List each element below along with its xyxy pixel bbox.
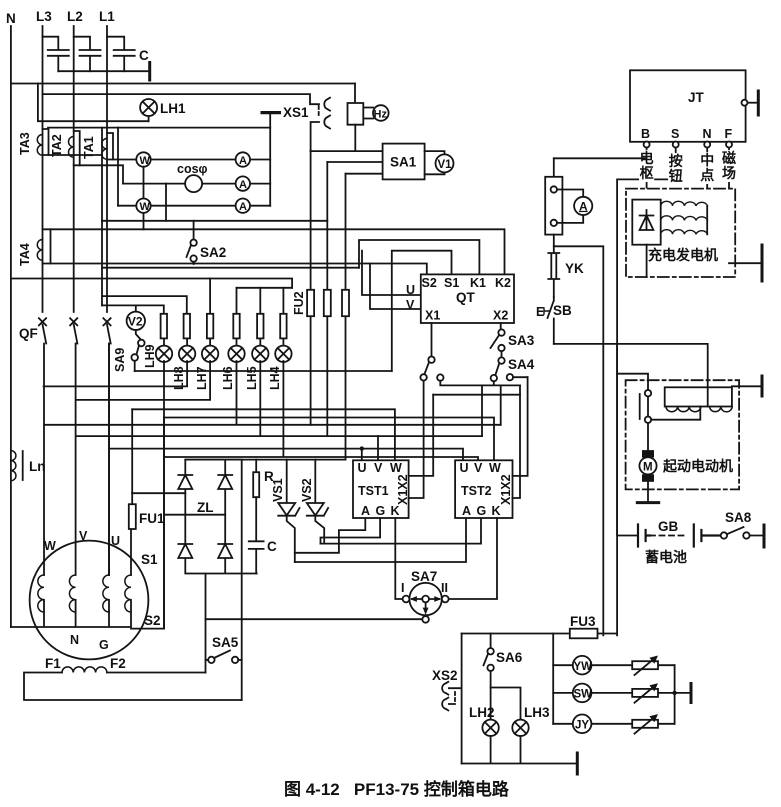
svg-text:LH9: LH9	[143, 344, 157, 368]
svg-text:A: A	[462, 504, 471, 518]
wire feed1 drop through FU2a	[310, 151, 312, 425]
SECTION:MIDLEFT2	[11, 344, 426, 701]
wire left return vertical x102	[101, 128, 103, 306]
node terminal bar	[148, 63, 151, 81]
wire shunt down	[553, 235, 555, 253]
wire N line	[10, 26, 12, 627]
wire gen neutral bus	[11, 600, 131, 627]
resistor LH9 dropper	[161, 314, 167, 339]
svg-text:LH6: LH6	[221, 366, 235, 390]
svg-text:E: E	[536, 305, 544, 319]
svg-text:QT: QT	[456, 290, 476, 305]
wire LH4 stub	[282, 288, 284, 314]
wire F line down	[728, 148, 730, 264]
wire VS1 gate bus B544	[321, 518, 381, 544]
node ground bar bottom	[576, 753, 579, 774]
svg-text:XS2: XS2	[432, 668, 458, 683]
node SA8 terminal bar	[763, 525, 766, 547]
svg-text:M: M	[643, 461, 653, 473]
wire rail y218	[102, 220, 327, 222]
node test terminal bar	[262, 111, 279, 114]
switch SA8	[721, 527, 764, 539]
wire TST2 X2 side	[433, 377, 527, 476]
wire SW branch	[553, 692, 674, 694]
meter W1	[136, 152, 150, 167]
svg-text:SA4: SA4	[508, 357, 535, 372]
wire QT U feed	[362, 251, 421, 295]
wire TST A bus	[295, 518, 466, 562]
wire LH1 down to rail127	[148, 116, 150, 121]
svg-text:K1: K1	[470, 276, 486, 290]
svg-text:B: B	[641, 127, 650, 141]
meter JY	[573, 715, 592, 734]
wire rail y183.6	[123, 183, 270, 185]
wire L2 line	[73, 26, 75, 312]
svg-text:QF: QF	[19, 326, 38, 341]
ground motor	[637, 501, 658, 504]
rheostat YW	[632, 656, 658, 676]
rectifier block in generator	[632, 200, 660, 245]
switch selector SA7	[403, 583, 449, 623]
meter V1	[425, 151, 454, 174]
SECTION:RIGHT-END	[284, 614, 691, 799]
svg-text:L3: L3	[36, 9, 52, 24]
lamp LH8	[179, 338, 195, 362]
field winding F1F2 coil	[62, 667, 107, 673]
svg-text:SB: SB	[553, 303, 572, 318]
wire N line down	[706, 148, 708, 221]
meter Hz	[373, 105, 389, 121]
svg-text:W: W	[390, 461, 402, 475]
wire LH7 bus y398.7	[76, 361, 210, 400]
wire TST2 X1 side	[513, 385, 521, 498]
battery GB	[617, 344, 721, 547]
switch SA2	[187, 221, 197, 264]
winding solenoid coil right	[710, 407, 733, 412]
meter YW	[573, 656, 592, 675]
wire rail y205.7	[118, 205, 270, 207]
svg-text:SA2: SA2	[200, 245, 226, 260]
generator G circle	[30, 541, 149, 660]
svg-text:G: G	[477, 504, 487, 518]
switch SA9	[131, 330, 144, 371]
wire SA1 feed2	[327, 161, 382, 163]
svg-text:LH7: LH7	[195, 366, 209, 390]
svg-text:电枢: 电枢	[640, 150, 654, 181]
breaker QF pole2	[70, 318, 77, 575]
svg-text:A: A	[361, 504, 370, 518]
svg-text:SA1: SA1	[390, 155, 417, 170]
wire LH8 bus y385.9	[44, 361, 188, 386]
wire X2 drop	[500, 323, 502, 329]
wire shunt top wire	[554, 157, 647, 159]
wire battery feed vertical	[616, 344, 618, 535]
plug Hz box	[348, 84, 374, 125]
wire FU3 bus	[462, 633, 617, 635]
svg-text:LH4: LH4	[268, 366, 282, 390]
svg-text:X1X2: X1X2	[396, 474, 410, 505]
winding S coil	[125, 575, 131, 612]
svg-text:TA4: TA4	[18, 243, 32, 266]
wire DC plus rail y459.6	[185, 459, 345, 461]
svg-text:N: N	[6, 11, 16, 26]
wire ZL upper AC input	[132, 492, 185, 494]
svg-text:Hz: Hz	[374, 109, 388, 121]
svg-text:LH3: LH3	[524, 705, 550, 720]
svg-text:S2: S2	[144, 613, 161, 628]
fuse FU3	[570, 629, 598, 639]
lamp LH2	[482, 720, 498, 736]
connector XS2 dashes	[454, 692, 456, 702]
wire SA1 feed3	[346, 173, 383, 175]
transformer TA2	[68, 131, 79, 165]
wire YW branch	[553, 664, 674, 666]
lamp LH9	[156, 338, 172, 362]
wire bus B409 to TST1 W	[132, 409, 395, 460]
svg-text:S1: S1	[141, 552, 158, 567]
wire rail y159.5	[113, 159, 270, 161]
winding stator coil row3	[661, 230, 708, 235]
svg-text:K: K	[492, 504, 501, 518]
relay YK	[548, 253, 559, 297]
node motor terminal upper	[645, 390, 651, 396]
wire SA2 bottom rail y267.3	[102, 267, 359, 269]
lamp LH4	[275, 338, 291, 362]
fuse FU2 c	[342, 290, 349, 316]
capacitor C (L2 branch)	[74, 37, 101, 71]
SECTION:QT-END	[536, 70, 764, 635]
wire lamp bottoms to ground	[462, 736, 578, 764]
wire B line down	[646, 148, 648, 200]
svg-text:W: W	[44, 539, 56, 553]
svg-text:XS1: XS1	[283, 105, 309, 120]
resistor LH4 dropper	[280, 314, 286, 339]
node collector terminal bar	[690, 684, 693, 703]
svg-text:按钮: 按钮	[668, 153, 683, 184]
fuse FU2 a	[307, 290, 314, 316]
wire TA1 tie vertical x118	[117, 128, 119, 206]
connector XS1 lower socket	[311, 116, 330, 152]
block charging generator dash box	[626, 189, 735, 277]
wire SB bottom bus	[554, 344, 708, 407]
svg-text:VS1: VS1	[271, 478, 285, 502]
svg-text:TA2: TA2	[50, 134, 64, 157]
svg-text:LH2: LH2	[469, 705, 495, 720]
fuse FU1	[129, 504, 136, 529]
transformer TA1	[102, 133, 113, 160]
node F terminal	[726, 142, 732, 148]
svg-text:TST1: TST1	[358, 484, 389, 498]
wire coil right tie	[706, 206, 708, 234]
wire LH5 stub	[259, 288, 261, 314]
wire TST1 X2 side	[409, 395, 434, 476]
wire right collector	[675, 665, 691, 724]
winding stator coil row1	[661, 201, 708, 206]
svg-text:GB: GB	[658, 519, 679, 534]
wire bus y241 to S1	[392, 251, 452, 371]
wire rail y287.8 resistor feed	[237, 287, 293, 289]
SECTION:GEN-END	[178, 377, 527, 623]
breaker QF pole1	[39, 318, 46, 575]
wire XS2 left vertical	[461, 634, 463, 764]
resistor R	[253, 460, 274, 498]
wire bus y278.5 from N	[11, 279, 292, 288]
capacitor C (L3 branch)	[43, 37, 69, 71]
wire SA1 feed1	[311, 150, 383, 152]
svg-text:ZL: ZL	[197, 500, 214, 515]
resistor LH6 dropper	[233, 314, 239, 339]
wire bus B436	[76, 361, 482, 436]
svg-text:V: V	[374, 461, 383, 475]
resistor LH7 dropper	[207, 314, 213, 339]
capacitor C filter	[249, 497, 277, 573]
fuse FU2 b	[324, 290, 331, 316]
node S terminal	[673, 142, 679, 148]
wire ZL bottom tap riser x205.5	[205, 574, 207, 673]
svg-text:N: N	[703, 127, 712, 141]
connector XS2 lower socket	[442, 698, 455, 711]
wire S coil top to FU1	[130, 529, 132, 575]
wire ammeter collector x270.2	[269, 113, 271, 206]
svg-text:K2: K2	[495, 276, 511, 290]
svg-text:L2: L2	[67, 9, 83, 24]
wire B619 to SA7	[206, 618, 426, 620]
wire rail y293.9 to LH8	[102, 296, 187, 314]
svg-text:F: F	[725, 127, 733, 141]
svg-text:中点: 中点	[700, 152, 714, 183]
svg-text:YK: YK	[565, 261, 584, 276]
svg-text:LH5: LH5	[245, 366, 259, 390]
meter cos phi	[177, 162, 208, 192]
svg-text:SA5: SA5	[212, 635, 239, 650]
wire relay right terminal	[732, 385, 762, 387]
wire JY branch	[553, 723, 674, 725]
svg-text:S2: S2	[422, 276, 437, 290]
svg-text:F1: F1	[45, 656, 61, 671]
SECTION:ZL-END	[406, 274, 535, 436]
inductor Ln	[11, 451, 23, 481]
wire W1-W2 tie	[143, 160, 145, 230]
svg-text:W: W	[489, 461, 501, 475]
junction dot collector	[672, 691, 676, 695]
wire JT right nub	[742, 91, 759, 115]
wire U line down	[108, 344, 110, 576]
wire bus B417 to TST2 W	[164, 418, 494, 461]
svg-text:cosφ: cosφ	[177, 162, 208, 176]
svg-text:U: U	[406, 283, 415, 297]
SECTION:METERS	[43, 84, 505, 460]
svg-text:X2: X2	[493, 309, 508, 323]
wire bus B425	[44, 361, 501, 425]
relay contact box	[665, 387, 732, 406]
block TST1 box	[353, 460, 409, 518]
wire LH9 stub up	[209, 279, 211, 314]
winding stator coil row2	[661, 216, 708, 221]
winding U coil	[103, 575, 109, 612]
svg-text:S: S	[671, 127, 679, 141]
diode ZL bottom-right	[218, 544, 232, 558]
rheostat SW	[632, 683, 658, 703]
lamp LH3	[512, 720, 528, 736]
wire cosphi rail tie	[165, 184, 167, 221]
node motor terminal lower	[645, 417, 651, 423]
svg-text:SW: SW	[574, 689, 593, 701]
transformer TA3	[37, 129, 48, 155]
svg-text:SA9: SA9	[113, 348, 127, 372]
svg-text:A: A	[239, 155, 247, 167]
connector XS2 upper socket	[442, 682, 461, 695]
switch SA3	[491, 329, 505, 351]
wire feed2 drop through FU2b	[326, 162, 328, 436]
wire SA4 right lead	[513, 376, 528, 378]
wire ZL lower AC input and S2 riser	[164, 418, 225, 629]
svg-text:SA8: SA8	[725, 510, 752, 525]
wire terminal link	[617, 374, 700, 450]
rectifier ZL box	[185, 460, 256, 574]
svg-text:G: G	[99, 638, 109, 652]
wire second drop x603	[602, 344, 604, 636]
switch SB	[544, 297, 554, 344]
diode ZL top-right	[218, 475, 232, 489]
meter A1	[236, 152, 250, 167]
svg-text:JY: JY	[575, 719, 589, 731]
wire FU1 top	[131, 493, 133, 504]
wire LH6 stub	[236, 288, 238, 314]
wire S line jog	[617, 148, 676, 636]
svg-text:X1: X1	[425, 309, 440, 323]
node B terminal	[644, 142, 650, 148]
wire top bus y83.5	[11, 83, 355, 85]
svg-text:I: I	[401, 581, 404, 595]
resistor LH8 dropper	[184, 314, 190, 339]
wire gen ground lead	[729, 262, 762, 264]
svg-text:V: V	[406, 298, 415, 312]
svg-text:FU1: FU1	[139, 511, 165, 526]
diode ZL top-left	[178, 475, 192, 489]
resistor LH5 dropper	[257, 314, 263, 339]
wire y377.4 link	[437, 374, 443, 380]
meter W2	[136, 199, 150, 214]
switch SA5	[206, 651, 242, 664]
wire bus y230 to K2	[51, 229, 505, 274]
svg-text:II: II	[441, 581, 448, 595]
node N terminal	[704, 142, 710, 148]
meter A charging	[557, 190, 592, 223]
winding W coil	[38, 575, 44, 612]
node gen terminal bar	[761, 245, 764, 281]
lamp LH6	[228, 338, 244, 362]
svg-text:W: W	[140, 201, 151, 213]
svg-text:FU3: FU3	[570, 614, 596, 629]
svg-text:F2: F2	[110, 656, 126, 671]
wire field right to SA5 riser	[107, 672, 206, 674]
switch SA1 box	[383, 144, 425, 180]
shunt box	[545, 158, 562, 234]
wire bus B457	[164, 361, 478, 460]
block starting motor dash box	[626, 380, 740, 489]
svg-text:U: U	[358, 461, 367, 475]
transformer TA4	[37, 229, 50, 263]
wire capacitor common to terminal	[58, 70, 149, 72]
svg-text:TST2: TST2	[461, 484, 492, 498]
switch SA4	[491, 351, 514, 381]
svg-text:W: W	[140, 155, 151, 167]
svg-text:起动电动机: 起动电动机	[662, 458, 733, 474]
diode ZL bottom-left	[178, 544, 192, 558]
wire ZL right riser x241.7	[241, 574, 243, 701]
svg-text:V2: V2	[128, 315, 143, 329]
wire rail y302.4 V2 to LH7	[102, 305, 164, 313]
wire bus y264 to S2	[51, 264, 427, 275]
motor M	[639, 450, 656, 502]
wire S2 link	[131, 628, 164, 630]
meter SW	[573, 684, 592, 703]
wire LH1 left up to bus	[38, 84, 149, 122]
meter V2	[127, 305, 145, 330]
capacitor C (L1 branch)	[107, 37, 135, 71]
lamp LH5	[252, 338, 268, 362]
wire Hz plug down to SA1 feed	[354, 125, 356, 151]
svg-text:C: C	[139, 48, 149, 63]
meter A3	[236, 199, 250, 214]
wire TST1 X1 side	[409, 381, 424, 498]
thyristor VS1	[278, 460, 299, 562]
svg-text:VS2: VS2	[300, 478, 314, 502]
wire B436 riser	[481, 385, 483, 436]
wire L3 line	[42, 26, 44, 312]
breaker QF pole3	[103, 318, 110, 575]
svg-text:Ln: Ln	[29, 459, 46, 474]
wire TA3 secondary bottom lead	[49, 154, 103, 156]
wire SA9 rail y371	[135, 370, 392, 372]
svg-text:K: K	[391, 504, 400, 518]
svg-text:SA3: SA3	[508, 333, 535, 348]
rheostat JY	[632, 714, 658, 734]
thyristor VS2	[307, 460, 328, 544]
connector XS1 dashes	[318, 106, 320, 118]
wire FU1 riser branch	[131, 409, 133, 493]
svg-text:A: A	[239, 179, 247, 191]
svg-text:V: V	[474, 461, 483, 475]
lamp LH1	[140, 99, 157, 116]
wire lamp branch drop x553.2	[552, 634, 554, 724]
svg-text:SA6: SA6	[496, 650, 523, 665]
svg-text:磁场: 磁场	[722, 150, 736, 181]
wire rail y127.6	[48, 127, 270, 129]
svg-text:TA3: TA3	[18, 132, 32, 155]
wire bus y235 to K1	[359, 240, 479, 274]
svg-text:V: V	[79, 529, 88, 543]
svg-text:JT: JT	[688, 90, 705, 105]
wire L1 line	[106, 26, 108, 312]
wire QT V feed	[370, 264, 421, 310]
block QT box	[421, 274, 514, 323]
svg-text:充电发电机: 充电发电机	[648, 247, 718, 263]
winding solenoid coil left	[666, 407, 701, 412]
winding V coil	[69, 575, 75, 612]
svg-text:G: G	[376, 504, 386, 518]
wire field left loop	[24, 673, 242, 701]
wire TA2 secondary bottom lead	[80, 165, 123, 183]
meter A2	[236, 176, 250, 191]
wire LH3 branch	[491, 688, 521, 720]
svg-text:FU2: FU2	[292, 291, 306, 315]
svg-text:C: C	[267, 539, 277, 554]
lamp LH7	[202, 338, 218, 362]
wire X1 drop	[431, 323, 433, 356]
switch X1 contact	[420, 357, 434, 381]
wire TST1 K to SA7	[395, 518, 402, 599]
